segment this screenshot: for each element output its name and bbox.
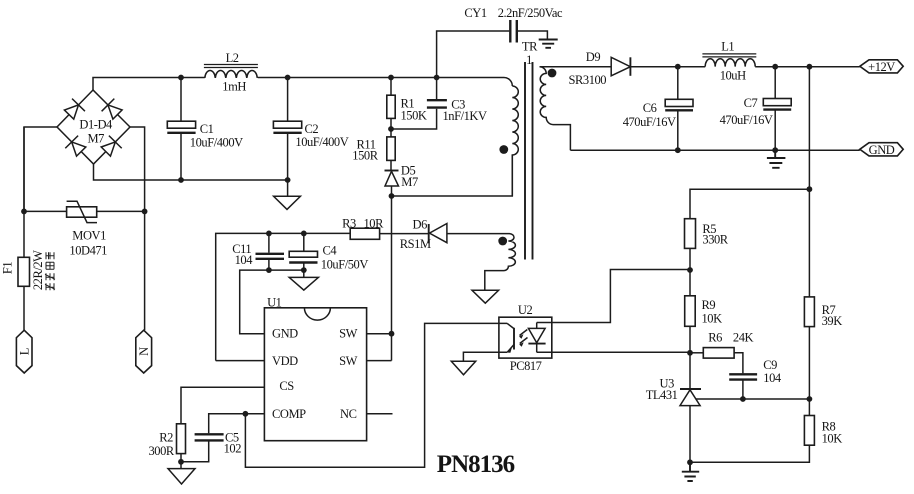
svg-text:1nF/1KV: 1nF/1KV bbox=[443, 109, 488, 123]
node R7/R8 junction bbox=[807, 396, 813, 402]
terminal L bbox=[16, 330, 32, 373]
svg-text:C2: C2 bbox=[305, 122, 319, 136]
svg-text:R6: R6 bbox=[708, 330, 722, 344]
svg-text:470uF/16V: 470uF/16V bbox=[720, 113, 773, 127]
resistor R6 bbox=[690, 330, 754, 373]
svg-text:150R: 150R bbox=[352, 149, 378, 163]
varistor MOV1 bbox=[21, 127, 147, 258]
node C3 top tap bbox=[434, 75, 440, 81]
svg-text:N: N bbox=[137, 347, 151, 356]
svg-text:10K: 10K bbox=[822, 432, 843, 446]
svg-text:150K: 150K bbox=[401, 108, 427, 122]
svg-text:U2: U2 bbox=[518, 303, 533, 317]
node C6 top bbox=[675, 64, 681, 70]
IC U1 PN8136 bbox=[264, 295, 366, 440]
optocoupler U2 PC817 bbox=[499, 303, 552, 373]
node R1 top tap bbox=[388, 75, 394, 81]
node C7 bottom bbox=[772, 147, 778, 153]
secondary phase dot bbox=[548, 69, 557, 78]
primary phase dot bbox=[499, 145, 508, 154]
svg-text:10uH: 10uH bbox=[720, 68, 746, 82]
svg-text:F1: F1 bbox=[1, 262, 15, 275]
capacitor C6 bbox=[623, 67, 693, 150]
capacitor C11 bbox=[232, 233, 284, 270]
node C6 bottom bbox=[675, 147, 681, 153]
resistor R5 bbox=[685, 219, 729, 270]
svg-text:CY1: CY1 bbox=[464, 6, 486, 20]
wire top rail from bridge to transformer primary bbox=[93, 78, 512, 91]
svg-text:330R: 330R bbox=[702, 233, 728, 247]
svg-text:10D471: 10D471 bbox=[69, 244, 107, 258]
earth ground at TL431 bbox=[682, 462, 699, 481]
wire GND pin net bbox=[240, 270, 304, 334]
resistor R3 bbox=[342, 217, 429, 240]
svg-text:RS1M: RS1M bbox=[400, 237, 431, 251]
wire VDD net top bbox=[216, 233, 351, 360]
opto LED bbox=[536, 323, 538, 329]
label wire-wound resistor (CJK) bbox=[45, 252, 55, 290]
fuse resistor F1 bbox=[1, 250, 46, 330]
earth ground under C7 bbox=[767, 150, 786, 168]
svg-text:1: 1 bbox=[526, 53, 532, 67]
resistor R1 bbox=[387, 78, 427, 130]
node C9 bottom bbox=[740, 396, 746, 402]
svg-text:M7: M7 bbox=[88, 132, 105, 146]
wire CS pin to R2 bbox=[181, 387, 264, 424]
transformer primary winding bbox=[512, 86, 518, 196]
svg-text:22R/2W: 22R/2W bbox=[31, 250, 45, 290]
wire feedback vertical from +12V rail down bbox=[808, 67, 810, 297]
node R1/C3 bottom join bbox=[388, 126, 394, 132]
opto light arrows bbox=[520, 330, 528, 344]
wire opto emitter to ground bbox=[463, 352, 507, 361]
wire COMP pin to C5 bbox=[209, 414, 265, 433]
svg-text:10R: 10R bbox=[364, 217, 385, 231]
svg-text:39K: 39K bbox=[822, 314, 843, 328]
node bottom rail C1 tap bbox=[178, 177, 184, 183]
wire TL431 ref to R7/R8 junction bbox=[695, 398, 809, 400]
wire D9 to L1 bbox=[630, 66, 705, 68]
wire R5 branch bbox=[690, 189, 809, 219]
resistor R8 bbox=[690, 399, 842, 462]
svg-text:104: 104 bbox=[763, 371, 782, 385]
svg-text:U1: U1 bbox=[267, 295, 282, 309]
svg-text:L1: L1 bbox=[721, 40, 734, 54]
shunt regulator U3 TL431 bbox=[646, 353, 701, 463]
svg-text:R3: R3 bbox=[342, 217, 356, 231]
svg-text:D9: D9 bbox=[586, 50, 601, 64]
svg-text:102: 102 bbox=[224, 441, 242, 455]
svg-text:TL431: TL431 bbox=[646, 388, 678, 402]
svg-text:10K: 10K bbox=[702, 312, 723, 326]
transformer secondary winding bbox=[540, 67, 571, 151]
node C11 top bbox=[266, 231, 272, 237]
node R5/R9/opto-anode bbox=[687, 267, 693, 273]
svg-text:SW: SW bbox=[339, 327, 358, 341]
ground under aux winding bbox=[472, 290, 499, 303]
transformer core bbox=[525, 62, 533, 260]
capacitor C2 bbox=[273, 78, 348, 197]
svg-text:COMP: COMP bbox=[272, 407, 306, 421]
resistor R9 bbox=[685, 270, 722, 353]
transformer aux winding bbox=[447, 234, 516, 291]
svg-text:SR3100: SR3100 bbox=[569, 73, 607, 87]
node SW / primary bottom / D5 bbox=[389, 193, 395, 199]
ground at R2 bbox=[168, 462, 195, 484]
wire NC pin stub bbox=[367, 413, 393, 415]
svg-text:1mH: 1mH bbox=[222, 80, 246, 94]
node TL431 anode / R8 bottom bbox=[687, 459, 693, 465]
wire SW node to primary bottom bbox=[392, 155, 513, 196]
svg-text:PC817: PC817 bbox=[510, 359, 542, 373]
capacitor C4 bbox=[289, 233, 368, 271]
svg-text:10uF/400V: 10uF/400V bbox=[295, 135, 348, 149]
inductor L2 bbox=[204, 51, 258, 94]
svg-text:104: 104 bbox=[235, 253, 254, 267]
node COMP / feedback bbox=[243, 411, 249, 417]
ground under C4 bbox=[289, 277, 318, 290]
transformer TR bbox=[447, 40, 611, 291]
inductor L1 bbox=[702, 40, 756, 83]
svg-text:R2: R2 bbox=[159, 430, 173, 444]
svg-text:R9: R9 bbox=[702, 298, 716, 312]
svg-text:CS: CS bbox=[279, 379, 294, 393]
diode D9 bbox=[569, 50, 631, 87]
node SW pin joint bbox=[389, 331, 395, 337]
node C7 top bbox=[772, 64, 778, 70]
svg-text:10uF/50V: 10uF/50V bbox=[321, 257, 369, 271]
diode D6 bbox=[400, 218, 447, 251]
svg-text:2.2nF/250Vac: 2.2nF/250Vac bbox=[498, 6, 563, 20]
aux phase dot bbox=[498, 237, 507, 246]
svg-text:SW: SW bbox=[339, 354, 358, 368]
svg-text:M7: M7 bbox=[401, 175, 418, 189]
wire opto LED anode to R5/R9 node bbox=[537, 270, 690, 323]
node R5 branch bbox=[807, 186, 813, 192]
resistor R11 bbox=[352, 129, 395, 170]
node top rail C1 tap bbox=[178, 75, 184, 81]
svg-text:NC: NC bbox=[340, 407, 357, 421]
wire GND rail bbox=[570, 149, 859, 151]
svg-text:C7: C7 bbox=[744, 96, 758, 110]
terminal +12V bbox=[860, 60, 903, 74]
svg-text:TR: TR bbox=[522, 40, 538, 54]
terminal N bbox=[136, 330, 152, 373]
earth ground at CY1 bbox=[539, 40, 558, 48]
wire VDD pin bbox=[216, 360, 265, 362]
svg-text:L: L bbox=[18, 348, 32, 355]
svg-text:VDD: VDD bbox=[272, 354, 298, 368]
resistor R7 bbox=[804, 297, 842, 399]
node R9 bottom / R6 / opto-cathode bbox=[687, 350, 693, 356]
wire SW pin 1 bbox=[367, 333, 392, 335]
svg-text:D1-D4: D1-D4 bbox=[79, 117, 113, 131]
wire opto collector to COMP net bbox=[245, 323, 507, 467]
svg-text:+12V: +12V bbox=[868, 60, 895, 74]
node R2 bottom / C5 bottom bbox=[178, 459, 184, 465]
svg-text:D6: D6 bbox=[413, 218, 428, 232]
node bottom rail C2 tap bbox=[285, 177, 291, 183]
wire L1 to +12V bbox=[755, 66, 860, 68]
capacitor C5 bbox=[181, 430, 241, 461]
diode D5 bbox=[385, 164, 418, 196]
svg-text:24K: 24K bbox=[733, 330, 754, 344]
wire SW pin 2 bbox=[367, 360, 392, 362]
svg-text:GND: GND bbox=[272, 327, 298, 341]
wire bridge bottom to bulk rail bbox=[94, 164, 288, 180]
svg-text:L2: L2 bbox=[226, 51, 239, 65]
svg-text:300R: 300R bbox=[149, 444, 175, 458]
terminal GND bbox=[860, 143, 903, 157]
wire opto LED cathode to R9/R6 node bbox=[537, 351, 690, 353]
resistor R2 bbox=[149, 424, 186, 462]
node top rail C2 tap bbox=[285, 75, 291, 81]
ground at opto emitter bbox=[451, 361, 475, 375]
svg-text:GND: GND bbox=[869, 143, 895, 157]
svg-text:C1: C1 bbox=[200, 122, 214, 136]
capacitor C9 bbox=[729, 358, 782, 399]
capacitor C7 bbox=[720, 67, 792, 150]
svg-text:10uF/400V: 10uF/400V bbox=[190, 136, 243, 150]
node C4 bottom bbox=[301, 267, 307, 273]
ground under C2 bbox=[274, 196, 301, 209]
capacitor C3 bbox=[391, 78, 487, 130]
node feedback branch top bbox=[807, 64, 813, 70]
opto transistor bbox=[507, 323, 514, 328]
svg-text:470uF/16V: 470uF/16V bbox=[623, 115, 676, 129]
wire bridge left vertex to L line bbox=[24, 127, 57, 257]
svg-text:C4: C4 bbox=[323, 244, 338, 258]
svg-text:PN8136: PN8136 bbox=[437, 451, 515, 478]
capacitor CY1 bbox=[437, 6, 563, 78]
node C11 bottom bbox=[266, 267, 272, 273]
node C4 top bbox=[301, 231, 307, 237]
capacitor C1 bbox=[167, 78, 243, 181]
wire bridge right vertex to N line bbox=[130, 127, 145, 330]
bridge rectifier D1-D4 bbox=[57, 90, 130, 164]
wire SW node down to SW pins bbox=[391, 196, 393, 361]
svg-text:C6: C6 bbox=[643, 101, 657, 115]
svg-text:MOV1: MOV1 bbox=[72, 229, 106, 243]
